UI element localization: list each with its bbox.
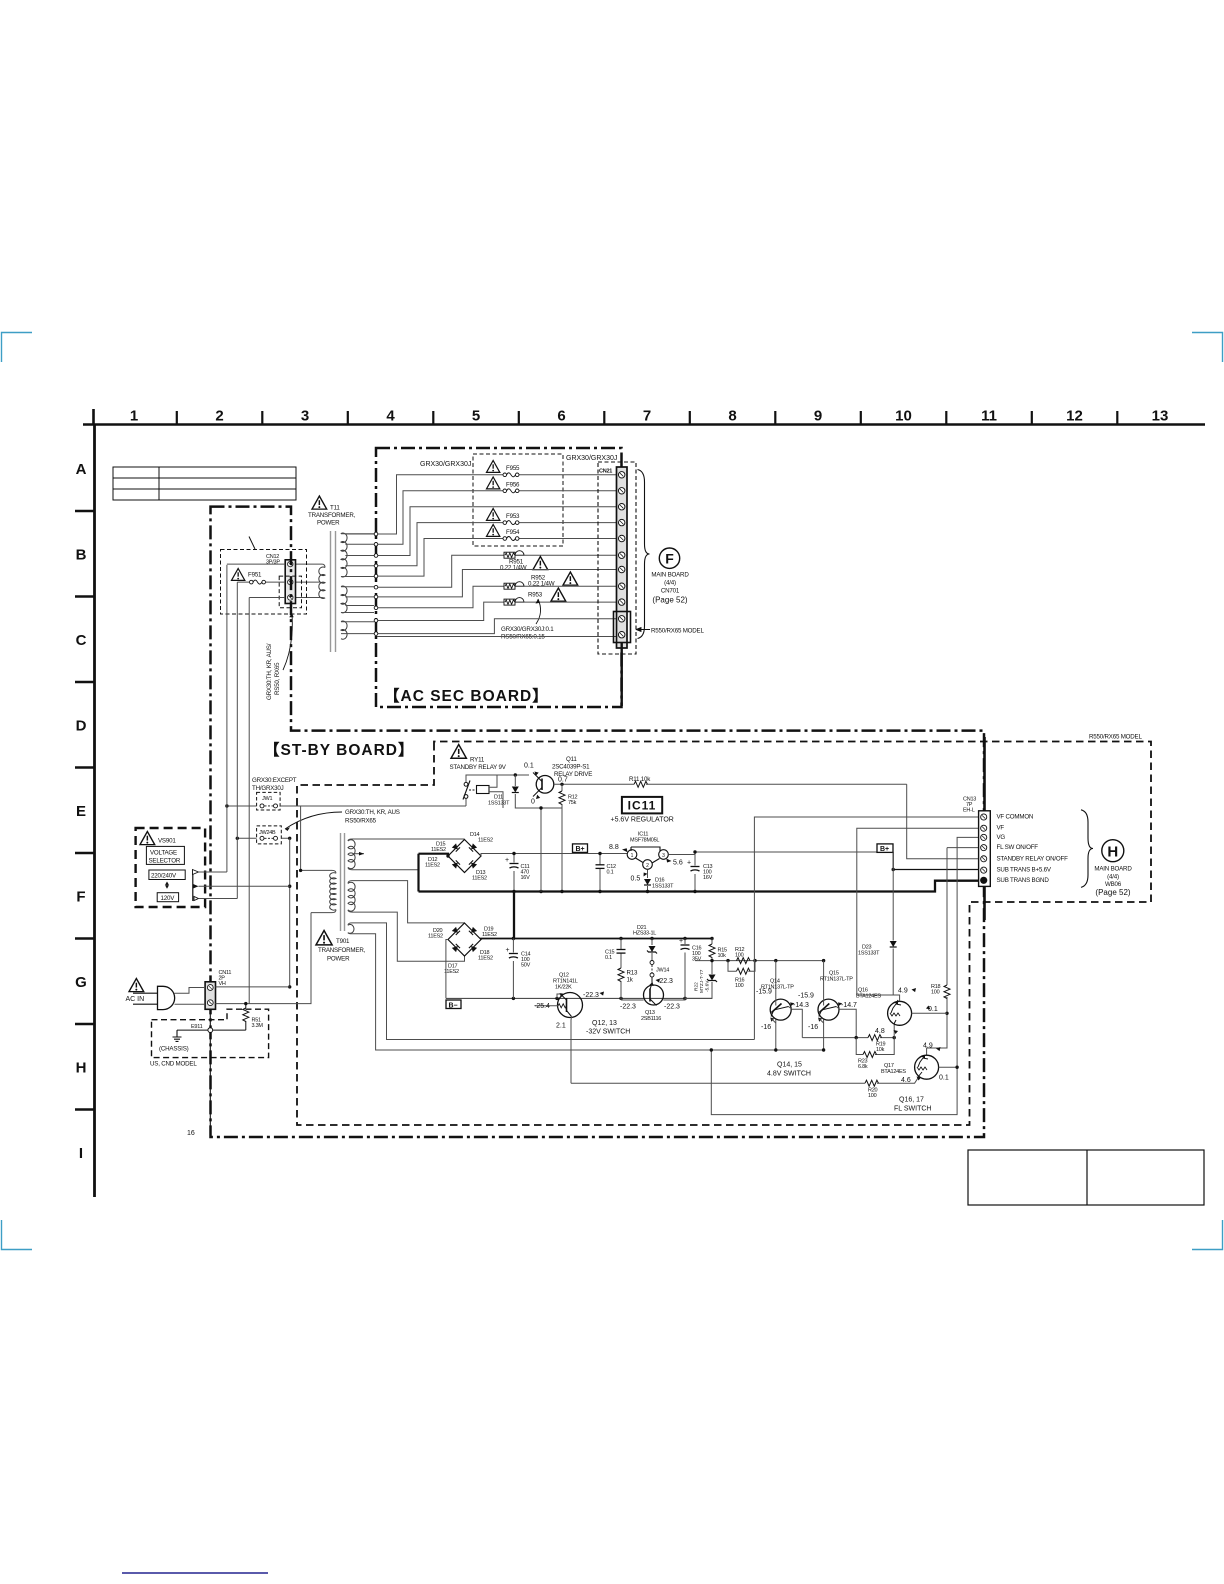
B- tag box xyxy=(446,1000,461,1009)
svg-text:3.3M: 3.3M xyxy=(252,1023,264,1029)
svg-text:R550/RX65 MODEL: R550/RX65 MODEL xyxy=(651,628,704,635)
svg-text:GRX30:TH, KR, AUS: GRX30:TH, KR, AUS xyxy=(345,809,400,816)
svg-text:T11: T11 xyxy=(330,505,340,512)
svg-text:FL SW ON/OFF: FL SW ON/OFF xyxy=(997,844,1039,851)
resistor R16 100 xyxy=(728,961,755,972)
T11 tap junctions xyxy=(374,532,378,536)
svg-text:5: 5 xyxy=(472,408,480,425)
svg-text:220/240V: 220/240V xyxy=(151,873,177,880)
wire tap6 to CN21 pin6 xyxy=(377,555,618,587)
svg-text:VG: VG xyxy=(997,834,1006,841)
svg-text:0: 0 xyxy=(531,799,535,806)
svg-text:7: 7 xyxy=(643,408,651,425)
T11 core xyxy=(330,531,332,652)
svg-text:0.1: 0.1 xyxy=(605,955,612,961)
svg-text:F956: F956 xyxy=(506,482,520,489)
resistor R12 75k xyxy=(561,784,563,891)
T901 secondary group2 xyxy=(348,882,355,911)
CN21 dashed box xyxy=(598,462,636,654)
svg-text:【AC SEC BOARD】: 【AC SEC BOARD】 xyxy=(384,687,549,705)
leader R953 note xyxy=(536,599,541,624)
svg-text:R13: R13 xyxy=(627,970,639,977)
svg-text:+5.6V REGULATOR: +5.6V REGULATOR xyxy=(611,817,674,824)
B- rail xyxy=(446,997,712,999)
svg-text:GRX30:EXCEPT: GRX30:EXCEPT xyxy=(252,777,297,784)
svg-text:2: 2 xyxy=(215,408,223,425)
diode D23 1SS133T xyxy=(892,852,894,995)
resistor R13 1k xyxy=(618,968,624,982)
transistor Q15 RT1N137L-TP xyxy=(798,961,857,1052)
fuse F954 xyxy=(503,537,519,541)
capacitor C11 470/16V xyxy=(510,864,519,869)
main board F callout xyxy=(659,548,679,568)
wire JW24B row xyxy=(237,837,289,839)
transistor Q12 RT1N141 xyxy=(534,973,599,1084)
svg-text:JW24B: JW24B xyxy=(259,830,276,836)
svg-text:(CHASSIS): (CHASSIS) xyxy=(159,1046,189,1053)
svg-text:US, CND MODEL: US, CND MODEL xyxy=(150,1061,197,1068)
wire selector common xyxy=(199,885,290,887)
svg-text:0.22 1/4W: 0.22 1/4W xyxy=(500,565,527,572)
T11 secondary group2 xyxy=(341,586,347,613)
wire STANDBY RELAY xyxy=(907,784,980,859)
svg-text:+: + xyxy=(505,857,509,864)
grid letter border left xyxy=(75,424,95,1197)
svg-text:RY11: RY11 xyxy=(470,757,485,764)
US CND MODEL dashed box xyxy=(152,1009,269,1057)
resistor R953 xyxy=(504,598,524,606)
wire JW1 row xyxy=(227,805,466,807)
relay RY11 xyxy=(450,745,562,809)
svg-text:F954: F954 xyxy=(506,529,520,536)
blue rule bottom xyxy=(122,1572,268,1574)
svg-text:100: 100 xyxy=(931,990,940,996)
svg-text:VF: VF xyxy=(997,825,1005,832)
svg-text:TH/GRX30J: TH/GRX30J xyxy=(252,785,284,792)
wire relay to primary xyxy=(300,806,302,870)
-32V rail xyxy=(481,939,712,940)
svg-text:-16: -16 xyxy=(761,1024,771,1031)
fuse F955 xyxy=(503,473,519,477)
diode bridge D12-D15 xyxy=(425,832,493,882)
T11 secondary group3 xyxy=(341,621,347,639)
capacitor C12 0.1 xyxy=(599,854,601,892)
svg-text:10: 10 xyxy=(895,408,912,425)
AC IN plug xyxy=(126,979,175,1010)
svg-text:JW14: JW14 xyxy=(656,968,669,974)
svg-text:-14.7: -14.7 xyxy=(841,1002,857,1009)
wire plug to CN11 pin2 xyxy=(175,1003,206,1005)
svg-text:AC IN: AC IN xyxy=(126,996,145,1003)
capacitor C13 100/16V xyxy=(694,852,696,892)
chassis ground xyxy=(173,1030,182,1041)
svg-text:10k: 10k xyxy=(718,953,727,959)
svg-text:-16: -16 xyxy=(808,1024,818,1031)
svg-text:MAIN BOARD: MAIN BOARD xyxy=(651,572,689,579)
wire CN11 pin1 to board xyxy=(216,986,290,988)
svg-text:TRANSFORMER,: TRANSFORMER, xyxy=(308,512,356,519)
svg-text:6: 6 xyxy=(557,408,565,425)
wire tap3 to CN21 pin3 xyxy=(377,507,618,556)
crop mark top-left xyxy=(2,333,33,363)
svg-text:11ES2: 11ES2 xyxy=(478,956,493,962)
svg-text:R22: R22 xyxy=(694,982,700,991)
CN12 connector body xyxy=(285,560,295,604)
svg-text:100: 100 xyxy=(868,1093,877,1099)
svg-text:10k: 10k xyxy=(876,1047,885,1053)
T901 group1 bottom lead xyxy=(348,867,419,869)
crop mark bottom-right xyxy=(1192,1220,1223,1250)
leader to CN12 xyxy=(283,614,292,670)
svg-text:1: 1 xyxy=(130,408,138,425)
svg-text:5.6: 5.6 xyxy=(673,860,683,867)
svg-text:(4/4): (4/4) xyxy=(664,580,676,587)
transistor Q14 RT1N137L-TP xyxy=(756,961,809,1052)
wire tap1 to CN21 pin1 xyxy=(377,475,618,534)
svg-text:GRX30/GRX30J:0.1: GRX30/GRX30J:0.1 xyxy=(501,626,554,633)
transistor Q16 BTA124ES xyxy=(856,988,947,1026)
connector CN11 xyxy=(205,970,231,1009)
T901 core xyxy=(340,833,342,931)
svg-text:B−: B− xyxy=(449,1002,458,1009)
svg-text:-22.3: -22.3 xyxy=(583,992,599,999)
wire CN12-pin3 down xyxy=(248,598,250,1004)
svg-text:4.9: 4.9 xyxy=(898,988,908,995)
svg-text:VH: VH xyxy=(219,981,226,987)
terminal E911 xyxy=(209,1009,211,1135)
svg-text:POWER: POWER xyxy=(327,956,350,963)
fuse F951 xyxy=(232,569,245,581)
resistor R23 6.8k xyxy=(856,1024,894,1055)
svg-text:TRANSFORMER,: TRANSFORMER, xyxy=(318,947,366,954)
svg-text:Q11: Q11 xyxy=(566,756,577,763)
svg-text:13: 13 xyxy=(1152,408,1169,425)
svg-text:GRX30/GRX30J: GRX30/GRX30J xyxy=(420,461,471,468)
svg-text:6.8k: 6.8k xyxy=(858,1064,868,1070)
svg-text:-15.9: -15.9 xyxy=(798,993,814,1000)
svg-text:MSF78M05L: MSF78M05L xyxy=(630,838,659,844)
capacitor C14 100/50V xyxy=(512,939,514,999)
svg-text:RS50, RX65: RS50, RX65 xyxy=(274,662,281,695)
svg-text:D: D xyxy=(76,718,87,735)
svg-text:R550/RX65 MODEL: R550/RX65 MODEL xyxy=(1089,734,1142,741)
voltage selector VS901 xyxy=(136,828,206,907)
grid ruler top xyxy=(83,408,1205,425)
svg-text:JW1: JW1 xyxy=(262,796,272,802)
revision table top-left xyxy=(113,467,296,500)
svg-text:16: 16 xyxy=(187,1130,195,1137)
T11 primary winding xyxy=(319,567,325,598)
svg-text:(Page 52): (Page 52) xyxy=(1095,888,1130,897)
svg-text:F: F xyxy=(76,889,85,906)
diode D16 1SS133T xyxy=(647,870,649,892)
wire VF from Q16 xyxy=(857,828,980,995)
svg-text:F955: F955 xyxy=(506,465,520,472)
svg-text:12: 12 xyxy=(1066,408,1083,425)
svg-text:C: C xyxy=(76,632,87,649)
svg-text:0.1: 0.1 xyxy=(928,1006,938,1013)
svg-text:4.9: 4.9 xyxy=(923,1043,933,1050)
svg-text:0.1: 0.1 xyxy=(939,1075,949,1082)
regulator IC11 MSF78M05L xyxy=(609,832,877,892)
T901 primary winding xyxy=(330,873,336,910)
wire selector 220/240V xyxy=(199,871,227,873)
svg-text:16V: 16V xyxy=(703,875,713,881)
AC SEC BOARD outline xyxy=(376,448,622,707)
wire relay top xyxy=(466,775,529,782)
connector CN13 xyxy=(963,737,1068,920)
svg-text:0.1: 0.1 xyxy=(607,870,614,876)
CN12 inner dashed box xyxy=(279,576,301,608)
svg-text:EH-L: EH-L xyxy=(963,808,975,814)
resistor R12 100 xyxy=(737,958,751,964)
CN12 dashed box xyxy=(221,550,307,615)
jumper JW14 xyxy=(650,961,654,965)
capacitor C15 0.1 xyxy=(620,939,622,1001)
svg-text:GRX30:TH, KR, AUS/: GRX30:TH, KR, AUS/ xyxy=(266,643,273,700)
svg-text:GRX30/GRX30J: GRX30/GRX30J xyxy=(566,455,617,462)
svg-text:Q14, 15: Q14, 15 xyxy=(777,1062,802,1069)
resistor R20 100 xyxy=(571,1078,918,1083)
svg-text:11ES2: 11ES2 xyxy=(428,934,443,940)
crop mark top-right xyxy=(1192,333,1223,363)
svg-text:I: I xyxy=(79,1145,83,1162)
wire tap9 to CN21 pin9 xyxy=(377,602,618,620)
svg-text:MAIN BOARD: MAIN BOARD xyxy=(1094,866,1132,873)
svg-text:3: 3 xyxy=(301,408,309,425)
T901 group1 centre tap xyxy=(352,853,364,855)
svg-text:35V: 35V xyxy=(692,957,702,963)
svg-text:16V: 16V xyxy=(521,875,531,881)
svg-text:RELAY DRIVE: RELAY DRIVE xyxy=(554,771,592,778)
svg-text:11ES2: 11ES2 xyxy=(425,863,440,869)
svg-text:-14.3: -14.3 xyxy=(793,1002,809,1009)
T901 group2 top lead xyxy=(348,881,465,923)
transistor Q17 BTA124ES xyxy=(881,1043,959,1085)
crop mark bottom-left xyxy=(2,1220,33,1250)
Q12 emitter to B- xyxy=(557,994,561,998)
svg-text:B: B xyxy=(76,547,87,564)
transistor Q13 2SB1116 xyxy=(620,977,685,1022)
svg-text:BTA124ES: BTA124ES xyxy=(856,994,881,1000)
svg-text:100: 100 xyxy=(735,953,744,959)
svg-text:11: 11 xyxy=(981,408,997,425)
svg-text:F951: F951 xyxy=(248,572,262,579)
svg-text:0.5: 0.5 xyxy=(631,876,641,883)
svg-text:H: H xyxy=(1107,844,1118,861)
wire FL SW / R18 xyxy=(927,848,980,1055)
svg-text:B+: B+ xyxy=(576,846,585,853)
svg-text:R953: R953 xyxy=(528,592,543,599)
T11 warning label xyxy=(312,496,327,509)
collector wire to R11 xyxy=(554,783,907,785)
Q12 collector down xyxy=(570,1017,573,1084)
jumper JW1 xyxy=(257,792,281,810)
long wire VF COMMON xyxy=(754,817,980,1040)
R550/RX65 MODEL dashed outline xyxy=(297,742,1151,1126)
GND bus xyxy=(419,881,981,892)
wire tap11 to CN21 pin11 xyxy=(377,635,618,637)
svg-text:-22.3: -22.3 xyxy=(664,1004,680,1011)
wire tap7 to CN21 pin7 xyxy=(377,570,618,597)
T11 primary leads xyxy=(296,564,326,567)
B+ rail from bridge1 xyxy=(481,854,627,857)
svg-text:MTZJ-T-77: MTZJ-T-77 xyxy=(699,969,705,993)
ST-BY BOARD outline xyxy=(211,507,985,1137)
svg-text:T901: T901 xyxy=(336,938,350,945)
IC11 out wire xyxy=(668,852,877,855)
wire CN12-pin2 to 120V xyxy=(236,582,238,898)
svg-text:4: 4 xyxy=(386,408,395,425)
wire tap5 to CN21 pin5 xyxy=(377,539,618,577)
T11 secondary group1 leads xyxy=(341,533,374,536)
wire CN12-pin1 to selector xyxy=(226,565,228,872)
CN12 leader xyxy=(249,537,255,550)
svg-text:Q16, 17: Q16, 17 xyxy=(899,1097,924,1104)
svg-text:F: F xyxy=(665,551,674,567)
svg-text:STANDBY RELAY ON/OFF: STANDBY RELAY ON/OFF xyxy=(997,856,1069,863)
svg-text:120V: 120V xyxy=(161,895,176,902)
wire relay bottom to primary xyxy=(465,798,467,806)
CN21 connector body xyxy=(617,467,628,648)
selector switch contacts xyxy=(192,870,194,902)
title table bottom-right xyxy=(968,1150,1204,1205)
resistor R11 10k xyxy=(634,781,648,787)
svg-text:H: H xyxy=(76,1060,87,1077)
relay coil xyxy=(477,786,490,794)
wire tap2 to CN21 pin2 xyxy=(377,491,618,545)
transistor Q11 2SC4039P-S1 xyxy=(524,756,907,892)
svg-text:11ES2: 11ES2 xyxy=(431,847,446,853)
svg-text:(4/4): (4/4) xyxy=(1107,874,1119,881)
T901 group2 bottom lead xyxy=(348,910,465,961)
svg-text:A: A xyxy=(76,461,87,478)
capacitor C16 100/35V xyxy=(684,939,686,999)
svg-text:IC11: IC11 xyxy=(628,799,657,813)
svg-text:F953: F953 xyxy=(506,513,520,520)
svg-text:VF COMMON: VF COMMON xyxy=(997,814,1034,821)
svg-text:CN701: CN701 xyxy=(661,588,680,595)
main board H callout xyxy=(1102,840,1124,862)
svg-text:100: 100 xyxy=(735,983,744,989)
wire plug to CN11 pin1 xyxy=(175,988,206,994)
connector CN21 xyxy=(598,462,704,706)
svg-text:STANDBY RELAY 9V: STANDBY RELAY 9V xyxy=(450,764,507,771)
svg-text:-32V SWITCH: -32V SWITCH xyxy=(586,1029,630,1036)
svg-text:FL SWITCH: FL SWITCH xyxy=(894,1106,931,1113)
svg-text:(Page 52): (Page 52) xyxy=(652,596,687,605)
B+ tag box left xyxy=(573,844,588,853)
T901 group1 top lead to bridge1 xyxy=(348,839,465,841)
svg-text:4.8: 4.8 xyxy=(875,1028,885,1035)
T901 primary leads xyxy=(301,870,336,873)
svg-text:VOLTAGE: VOLTAGE xyxy=(150,850,177,857)
svg-text:11ES2: 11ES2 xyxy=(478,838,493,844)
measurement arrows xyxy=(600,992,605,996)
connector CN12 area xyxy=(221,537,307,701)
svg-text:2SB1116: 2SB1116 xyxy=(641,1016,661,1022)
relay contact xyxy=(464,782,468,786)
diode D11 1SS133T xyxy=(515,775,561,808)
T901 secondary group1 xyxy=(348,840,355,869)
svg-text:-5.6V: -5.6V xyxy=(705,980,711,992)
svg-text:1SS133T: 1SS133T xyxy=(652,884,674,890)
resistor R951 0.22 1/4W xyxy=(504,551,524,559)
svg-text:Q12, 13: Q12, 13 xyxy=(592,1020,617,1027)
transformer T901 xyxy=(299,806,824,1050)
svg-text:RT1N137L-TP: RT1N137L-TP xyxy=(820,977,853,983)
fuse group dashed box xyxy=(473,454,563,546)
svg-text:0.1: 0.1 xyxy=(524,763,534,770)
svg-text:+: + xyxy=(679,938,683,945)
svg-text:1: 1 xyxy=(631,853,634,859)
diode bridge D17-D20 xyxy=(428,923,497,975)
resistor R15 10k xyxy=(711,939,713,961)
svg-text:R11 10k: R11 10k xyxy=(629,776,651,783)
svg-text:SELECTOR: SELECTOR xyxy=(149,858,181,865)
svg-text:4.8V SWITCH: 4.8V SWITCH xyxy=(767,1071,811,1078)
CN21 brace xyxy=(638,470,650,639)
wire CN11 pin2 to T901 xyxy=(216,913,312,1004)
CN21 bottom stub wire xyxy=(621,642,623,706)
wire bridge2 left to B- rail xyxy=(446,940,448,999)
svg-text:11ES2: 11ES2 xyxy=(472,876,487,882)
svg-text:SUB TRANS B+5.6V: SUB TRANS B+5.6V xyxy=(997,867,1052,874)
long wire VG loop xyxy=(711,837,980,1114)
svg-text:-25.4: -25.4 xyxy=(534,1003,550,1010)
svg-text:-22.3: -22.3 xyxy=(620,1004,636,1011)
resistor R51 3.3M xyxy=(243,1008,249,1022)
svg-text:CN21: CN21 xyxy=(599,469,612,475)
wire D11 gnd drop xyxy=(540,808,542,892)
wire tap10 to CN21 pin10 xyxy=(377,619,618,634)
T901 group3 lead A xyxy=(348,923,754,1040)
svg-text:E911: E911 xyxy=(191,1024,203,1030)
R550/RX65 pin frame xyxy=(614,612,631,643)
svg-text:G: G xyxy=(75,974,87,991)
svg-text:POWER: POWER xyxy=(317,520,340,527)
svg-text:2SC4039P-S1: 2SC4039P-S1 xyxy=(552,764,590,771)
svg-text:+: + xyxy=(687,860,691,867)
wire tap8 to CN21 pin8 xyxy=(377,586,618,608)
CN13 brace xyxy=(1081,810,1093,888)
svg-text:RS50/RX65: RS50/RX65 xyxy=(345,818,377,825)
transformer T11 xyxy=(296,496,378,652)
wire E911 row xyxy=(177,1029,246,1031)
svg-text:-15.9: -15.9 xyxy=(756,989,772,996)
base feed rail xyxy=(695,960,824,962)
svg-text:8: 8 xyxy=(728,408,736,425)
svg-text:9: 9 xyxy=(814,408,822,425)
svg-text:50V: 50V xyxy=(521,963,531,969)
wire JW24B down xyxy=(289,838,291,987)
wire bridge1 left feed xyxy=(419,854,449,856)
B+ tag box right xyxy=(877,844,893,853)
fuse F953 xyxy=(503,521,519,525)
svg-text:BTA124ES: BTA124ES xyxy=(881,1069,906,1075)
IC11 label box xyxy=(611,797,674,824)
wire gnd bus to 0V rail xyxy=(513,892,515,939)
svg-text:11ES2: 11ES2 xyxy=(482,932,497,938)
Q12 base wire xyxy=(535,1005,558,1007)
svg-text:1K/22K: 1K/22K xyxy=(555,985,572,991)
svg-text:75k: 75k xyxy=(568,800,577,806)
svg-text:3: 3 xyxy=(662,853,665,859)
wire selector 120V xyxy=(199,898,238,900)
svg-text:8.8: 8.8 xyxy=(609,844,619,851)
resistor R19 10k xyxy=(802,1037,894,1039)
svg-text:1SS133T: 1SS133T xyxy=(858,951,880,957)
